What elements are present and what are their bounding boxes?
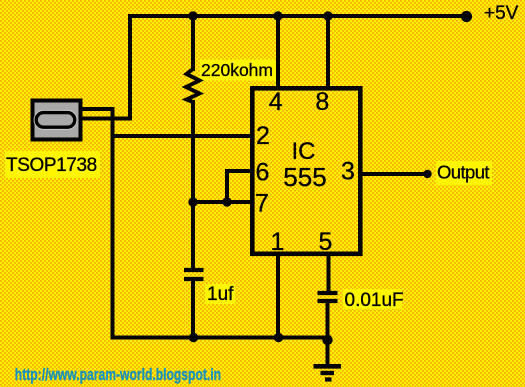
svg-text:Output: Output [437,162,489,183]
svg-text:+5V: +5V [484,3,519,24]
svg-text:555: 555 [283,162,326,192]
svg-text:IC: IC [292,138,316,165]
svg-text:5: 5 [319,228,333,256]
svg-text:220kohm: 220kohm [201,60,273,80]
svg-text:3: 3 [341,158,355,186]
svg-text:2: 2 [256,122,270,150]
svg-text:http://www.param-world.blogspo: http://www.param-world.blogspot.in [15,366,221,384]
svg-text:8: 8 [315,88,329,116]
svg-text:1uf: 1uf [207,284,234,305]
svg-text:TSOP1738: TSOP1738 [6,155,97,176]
svg-text:1: 1 [271,228,285,256]
svg-text:4: 4 [269,88,283,116]
svg-text:7: 7 [255,190,269,218]
svg-text:6: 6 [256,159,270,187]
svg-text:0.01uF: 0.01uF [345,290,404,311]
